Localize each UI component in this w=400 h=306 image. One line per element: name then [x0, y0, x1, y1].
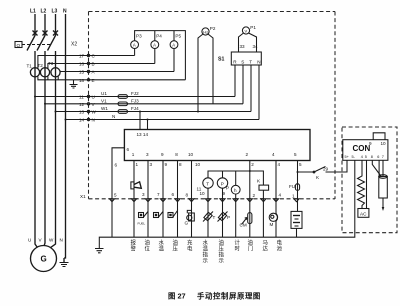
svg-text:Hz: Hz	[203, 30, 208, 35]
svg-text:示: 示	[219, 258, 225, 265]
svg-text:油: 油	[145, 239, 150, 247]
svg-text:10: 10	[381, 141, 387, 146]
svg-text:5: 5	[294, 152, 297, 157]
svg-text:M: M	[270, 222, 274, 227]
svg-text:油: 油	[173, 239, 178, 247]
ammeter top line	[135, 31, 186, 80]
CON dashed enclosure	[342, 127, 397, 233]
svg-text:13 14: 13 14	[137, 132, 149, 137]
svg-text:6: 6	[127, 147, 130, 152]
svg-text:h: h	[234, 188, 237, 193]
CON top pins 9 10 jumper	[373, 133, 385, 140]
wire P2 right leg to row12	[208, 34, 213, 104]
svg-text:P1: P1	[250, 25, 256, 30]
svg-text:18: 18	[79, 78, 85, 83]
svg-text:温: 温	[203, 245, 209, 253]
wire pin5 column	[297, 161, 299, 212]
svg-text:7: 7	[382, 155, 384, 159]
wire S1 R to row11	[234, 65, 236, 97]
svg-text:1: 1	[132, 152, 135, 157]
horn buzzer	[131, 182, 134, 189]
svg-text:4: 4	[272, 152, 275, 157]
svg-text:2: 2	[246, 152, 249, 157]
terminal 12 V	[87, 103, 89, 105]
svg-text:V: V	[245, 29, 248, 34]
svg-text:8: 8	[371, 155, 373, 159]
svg-text:计: 计	[235, 239, 241, 247]
wire phase L2 vertical	[44, 14, 46, 36]
wire pin4 column	[275, 161, 277, 215]
svg-text:15: 15	[79, 70, 85, 75]
terminal strip X2 dashed	[88, 12, 90, 199]
svg-text:门: 门	[248, 245, 253, 253]
svg-text:手动控制屏原理图: 手动控制屏原理图	[197, 292, 261, 301]
breaker lever L1	[27, 36, 35, 51]
throttle solenoid CM	[248, 213, 252, 224]
fuse FJ3	[118, 102, 128, 106]
wire row11 tap from U line	[35, 96, 232, 98]
svg-text:3: 3	[150, 162, 153, 167]
svg-text:CON: CON	[353, 144, 371, 153]
svg-text:P3: P3	[136, 34, 142, 39]
terminal 13 W	[87, 110, 89, 112]
selector switch S1 box	[231, 52, 261, 65]
ground bus	[99, 160, 354, 248]
Chinese labels	[131, 239, 283, 265]
svg-text:6: 6	[115, 163, 118, 168]
svg-text:水: 水	[203, 239, 209, 247]
wire pin13 stub	[139, 112, 141, 130]
svg-text:V1: V1	[101, 98, 107, 103]
wire row13 tap from W line	[56, 111, 252, 113]
actuator solenoid	[379, 177, 388, 199]
ammeter feed bus	[134, 48, 136, 55]
svg-text:34: 34	[253, 44, 259, 49]
hour meter h	[231, 185, 240, 194]
svg-text:U1: U1	[101, 91, 107, 96]
breaker Q linkage dashed	[22, 44, 50, 46]
svg-text:33: 33	[240, 44, 246, 49]
fuse FU L1 (x mark)	[33, 31, 38, 36]
svg-text:G: G	[41, 255, 47, 264]
svg-text:B: B	[92, 62, 95, 67]
svg-text:17: 17	[79, 54, 85, 59]
svg-text:1: 1	[136, 162, 139, 167]
svg-text:充: 充	[187, 239, 193, 247]
meter P1	[242, 27, 249, 34]
breaker lever L2	[37, 36, 45, 51]
wire P2 left leg to row13	[198, 34, 203, 112]
relay contact K	[314, 167, 326, 173]
ground symbol at bus	[95, 249, 104, 253]
svg-text:A: A	[172, 43, 175, 48]
terminal 11 U	[87, 95, 89, 97]
svg-text:指: 指	[219, 251, 225, 259]
wire row12 tap from V line	[45, 103, 243, 105]
svg-text:U: U	[92, 95, 95, 100]
wire pin9 column (water temp sw)	[162, 161, 164, 238]
water temp switch	[154, 213, 159, 218]
svg-text:Q: Q	[17, 43, 21, 48]
svg-text:N: N	[112, 114, 115, 119]
svg-text:图 27: 图 27	[168, 292, 186, 301]
wire CT T2 secondary to row 16	[48, 64, 155, 69]
wire hour meter down	[235, 194, 237, 237]
svg-text:W: W	[49, 238, 54, 243]
wire pin3 column (fuel level)	[147, 161, 149, 238]
wire S1 S to row12	[242, 65, 244, 104]
svg-text:3: 3	[146, 152, 149, 157]
svg-text:W: W	[92, 110, 97, 115]
generator G	[31, 246, 57, 272]
svg-text:13: 13	[79, 110, 85, 115]
wire pin10 column (charge)	[191, 161, 193, 238]
svg-text:10: 10	[200, 191, 206, 196]
svg-text:T1: T1	[27, 64, 33, 69]
CT T3	[51, 68, 60, 77]
svg-text:AC: AC	[360, 211, 367, 216]
wire pin6 out left	[112, 148, 124, 237]
pressure sender	[218, 212, 226, 221]
svg-text:8: 8	[186, 193, 189, 198]
wire pin2 column	[249, 161, 251, 238]
starter motor M	[269, 213, 277, 221]
svg-text:压: 压	[173, 246, 179, 253]
wire S1 T to row13	[250, 65, 252, 112]
svg-text:16: 16	[79, 62, 85, 67]
svg-text:达: 达	[263, 245, 269, 253]
breaker Q box	[15, 42, 22, 48]
svg-text:4: 4	[361, 155, 363, 159]
dashed frame top	[89, 11, 336, 13]
wire row14 tap from N line	[66, 119, 260, 121]
svg-text:10: 10	[195, 162, 201, 167]
wire pin14 stub	[147, 120, 149, 130]
svg-text:E: E	[92, 78, 95, 83]
svg-text:电: 电	[277, 239, 283, 247]
wire N to ground	[63, 258, 65, 263]
gauge supply line from pin2	[208, 171, 263, 178]
svg-text:A: A	[133, 43, 136, 48]
svg-text:FU: FU	[289, 184, 295, 189]
terminal 16 B	[87, 62, 89, 64]
svg-text:4: 4	[279, 193, 282, 198]
terminal 18 E	[87, 79, 89, 81]
fuel level sensor	[139, 213, 144, 218]
wire phase L1 vertical	[34, 14, 36, 36]
wire pin1 column (alarm)	[133, 161, 135, 238]
svg-text:9: 9	[369, 141, 372, 146]
fuse FU L2 (x mark)	[43, 31, 48, 36]
fuse FU on pin5 column	[295, 184, 299, 191]
ammeter P3	[131, 41, 139, 49]
svg-text:位: 位	[145, 245, 151, 253]
svg-text:A: A	[153, 43, 156, 48]
svg-text:P: P	[227, 215, 230, 220]
svg-text:CM: CM	[240, 223, 247, 228]
charging generator	[189, 213, 195, 221]
svg-text:FJ4: FJ4	[131, 106, 139, 111]
svg-text:12: 12	[79, 102, 85, 107]
svg-text:10: 10	[188, 152, 194, 157]
svg-text:T: T	[213, 215, 216, 220]
svg-text:示: 示	[203, 258, 209, 265]
svg-text:T: T	[249, 60, 252, 65]
svg-text:马: 马	[263, 239, 268, 247]
wire CON 5 to AC	[366, 160, 368, 208]
gauge T (water temp)	[203, 178, 213, 188]
svg-text:T: T	[206, 181, 209, 186]
wire gauge T down	[207, 188, 209, 237]
svg-text:1: 1	[292, 194, 295, 199]
svg-text:6: 6	[172, 192, 175, 197]
svg-text:5: 5	[365, 155, 367, 159]
branch to K contact	[297, 171, 299, 173]
fuse FU L3 (x mark)	[53, 31, 58, 36]
svg-text:L3: L3	[52, 9, 58, 15]
temp sender	[204, 212, 212, 221]
wire CT T3 secondary to row 15	[60, 71, 174, 73]
wire CT commons to row 18	[38, 77, 186, 80]
svg-text:报: 报	[131, 239, 137, 247]
svg-text:7: 7	[157, 192, 160, 197]
svg-text:FJ2: FJ2	[131, 91, 139, 96]
wire neutral N vertical	[64, 14, 66, 258]
svg-text:2: 2	[253, 193, 256, 198]
wire S1 N to row14	[258, 65, 260, 120]
svg-text:S1: S1	[218, 57, 224, 63]
svg-text:P2: P2	[210, 26, 216, 31]
svg-text:油: 油	[219, 239, 224, 247]
svg-text:水: 水	[159, 239, 165, 247]
meter P2	[202, 28, 209, 35]
svg-text:时: 时	[235, 245, 241, 253]
connector dashed line X1	[89, 198, 336, 200]
svg-text:5: 5	[114, 193, 117, 198]
svg-text:池: 池	[277, 245, 283, 253]
svg-text:9: 9	[223, 191, 226, 196]
svg-text:P5: P5	[175, 34, 181, 39]
svg-text:L2: L2	[41, 9, 47, 15]
svg-text:11: 11	[79, 95, 84, 100]
terminal 15 A	[87, 70, 89, 72]
fuse FJ4	[118, 110, 128, 114]
svg-text:4: 4	[278, 162, 281, 167]
svg-text:警: 警	[131, 245, 137, 253]
svg-text:N: N	[92, 118, 95, 123]
svg-text:S: S	[241, 60, 244, 65]
svg-text:2: 2	[251, 162, 254, 167]
CT T1	[30, 68, 39, 77]
wire P1 legs to S1	[239, 33, 244, 52]
wire gauge P down	[222, 188, 224, 237]
svg-text:指: 指	[203, 251, 209, 259]
wire CT T1 secondary to row 17	[38, 56, 135, 69]
breaker lever L3	[48, 36, 56, 51]
svg-text:P: P	[226, 186, 229, 191]
terminal 17 C	[87, 54, 89, 56]
svg-text:5: 5	[299, 162, 302, 167]
svg-text:8: 8	[179, 162, 182, 167]
CT T2	[40, 68, 49, 77]
svg-text:X1: X1	[80, 194, 86, 199]
svg-text:N: N	[63, 9, 67, 15]
svg-text:L1: L1	[30, 9, 36, 15]
svg-text:压: 压	[219, 246, 225, 253]
wire CON 6 to actuator	[378, 160, 380, 176]
svg-text:G: G	[185, 221, 189, 226]
svg-text:29: 29	[323, 167, 329, 172]
svg-text:P: P	[221, 181, 224, 186]
fuse FJ2	[118, 95, 128, 99]
wire CON 7 to actuator	[382, 160, 384, 176]
svg-text:N: N	[60, 238, 63, 243]
gauge P (oil pressure)	[217, 178, 227, 188]
oil pressure switch	[168, 213, 173, 218]
ground at generator	[60, 263, 69, 267]
svg-text:电: 电	[187, 245, 193, 253]
svg-text:P4: P4	[156, 34, 162, 39]
wire pin8 column (oil pressure sw)	[177, 161, 179, 238]
svg-text:W1: W1	[101, 106, 108, 111]
ground on row 18	[70, 80, 78, 88]
relay K coil branch	[250, 171, 264, 185]
terminal 14 N	[87, 118, 89, 120]
svg-text:14: 14	[79, 118, 85, 123]
controller main box	[124, 130, 310, 161]
wire CON 8 diagonal to actuator	[372, 160, 381, 176]
svg-text:8: 8	[175, 152, 178, 157]
svg-text:X2: X2	[71, 42, 77, 48]
wire K coil down	[262, 190, 264, 237]
svg-text:FUEL: FUEL	[138, 222, 146, 226]
ammeter P5	[170, 41, 178, 49]
svg-text:FJ3: FJ3	[131, 98, 139, 103]
svg-text:3: 3	[142, 192, 145, 197]
battery	[291, 211, 302, 228]
CON controller box	[343, 140, 388, 161]
wire CON 4 to heater zigzag	[358, 160, 365, 208]
svg-text:6: 6	[377, 155, 379, 159]
svg-text:9: 9	[161, 152, 164, 157]
svg-text:9: 9	[165, 162, 168, 167]
svg-text:温: 温	[159, 245, 165, 253]
svg-text:油: 油	[248, 239, 253, 247]
svg-text:N: N	[257, 60, 260, 65]
wire phase L3 vertical	[55, 14, 57, 36]
svg-text:U: U	[28, 238, 31, 243]
AC pickup box	[358, 209, 369, 218]
dashed frame right	[334, 12, 336, 200]
connector pins on X1 line	[109, 199, 299, 202]
ammeter P4	[151, 41, 159, 49]
